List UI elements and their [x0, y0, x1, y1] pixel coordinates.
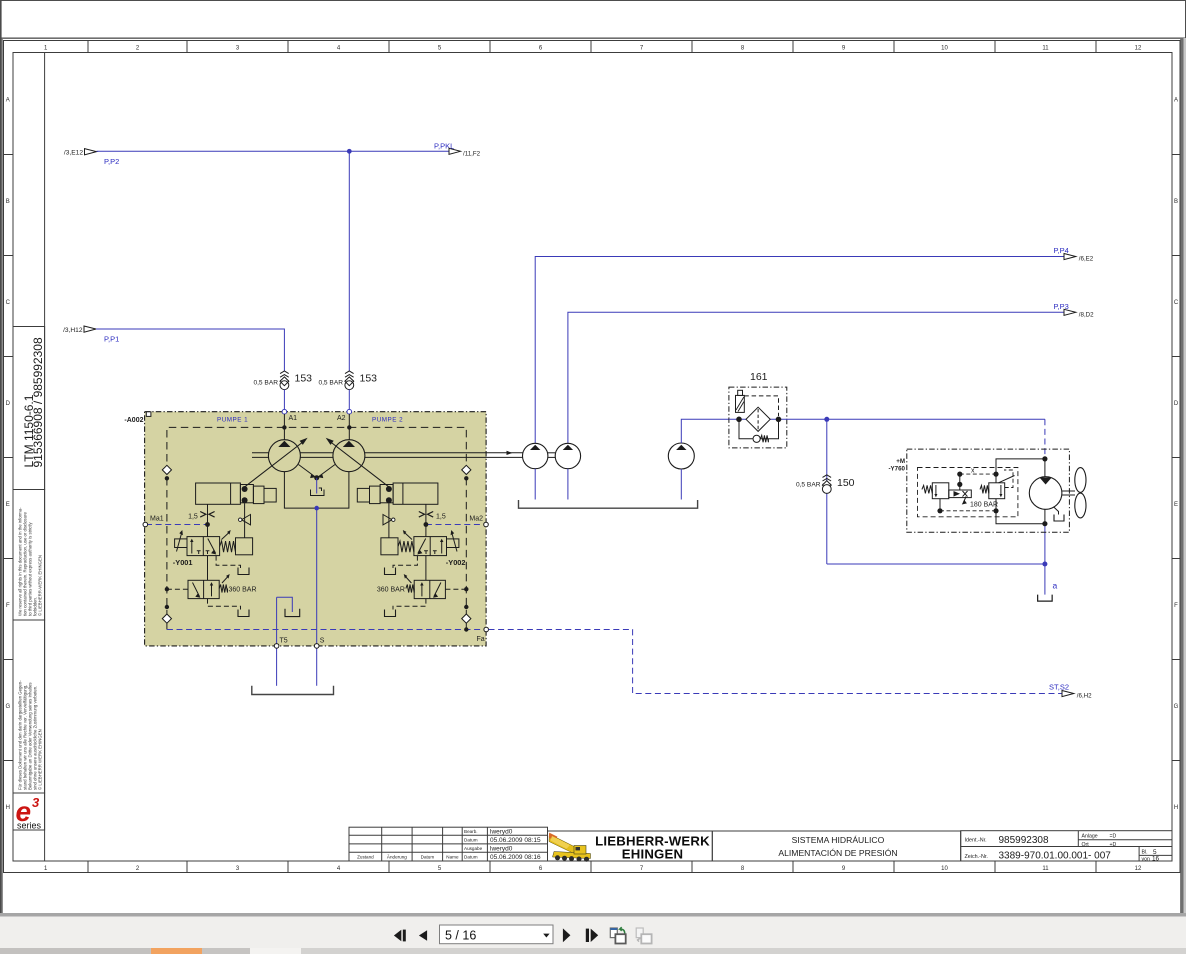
svg-text:-Y001: -Y001 — [173, 558, 193, 567]
node P,PKL output arrow /11,F2 — [434, 141, 481, 157]
wire valve pilot dashed with x — [960, 473, 996, 475]
node P,P3 output arrow /8,D2 — [1054, 302, 1095, 319]
valve A (unloading) — [922, 483, 971, 505]
product name rotated text — [22, 337, 45, 467]
wire drain to motor return — [996, 511, 1045, 524]
svg-text:Ident.-Nr.: Ident.-Nr. — [965, 838, 987, 844]
port T5 — [274, 644, 279, 649]
svg-text:161: 161 — [750, 371, 768, 383]
cylinder 2 piston pins — [386, 486, 392, 492]
bottom gray divider under page — [0, 913, 1186, 917]
pump unit -A002 enclosure — [145, 412, 487, 646]
wire A2 into pump 2 — [348, 414, 350, 440]
wire cooler return bottom — [827, 563, 1045, 565]
sidebar english notice box — [13, 490, 45, 621]
motor case drain + tank — [1054, 507, 1059, 515]
node ST,S2 output arrow /6,H2 — [1049, 682, 1092, 699]
fan unit -Y760 enclosure — [907, 449, 1070, 532]
drain V junction — [314, 475, 319, 480]
fan motor — [1029, 459, 1062, 524]
svg-text:Fa: Fa — [477, 636, 485, 643]
port A2 — [347, 409, 352, 414]
auxiliary gear pump 2 (P3) — [555, 443, 580, 468]
pump P2 (variable axial piston) — [326, 438, 389, 487]
wire aux pump suction drops — [535, 469, 681, 500]
svg-text:153: 153 — [360, 373, 378, 385]
wire -Y002 drain to tank — [393, 556, 417, 568]
svg-text:1,5: 1,5 — [188, 513, 198, 520]
check valve 150 — [796, 475, 855, 494]
svg-text:3389-970.01.00.001- 007: 3389-970.01.00.001- 007 — [999, 851, 1112, 862]
ident number box — [961, 831, 1172, 861]
cylinder 1 piston pins — [242, 486, 248, 492]
svg-text:10: 10 — [941, 866, 948, 872]
svg-text:A2: A2 — [337, 415, 346, 422]
svg-text:Name: Name — [446, 854, 459, 859]
port Ma2 — [484, 522, 489, 527]
svg-text:150: 150 — [837, 477, 855, 489]
svg-text:05.06.2009 08:16: 05.06.2009 08:16 — [490, 854, 541, 861]
wire Ma1 junction to -Y001 — [207, 525, 209, 537]
wire filter junction down to check valve 150 — [826, 419, 828, 564]
svg-text:x: x — [971, 468, 975, 475]
pump P1 (variable axial piston) — [245, 438, 308, 487]
svg-text:lweryd0: lweryd0 — [490, 845, 513, 852]
svg-text:-Y002: -Y002 — [446, 558, 466, 567]
svg-text:Ma2: Ma2 — [469, 516, 483, 523]
pump 2 stroking cylinder — [357, 483, 438, 504]
svg-text:11: 11 — [1042, 45, 1049, 51]
fan shaft — [1062, 491, 1075, 495]
wire ST,S2 drain (blue dashed) — [489, 630, 1063, 694]
wire T5 drain (blue) — [276, 597, 278, 686]
svg-text:-Y760: -Y760 — [888, 466, 905, 473]
svg-text:Änderung: Änderung — [387, 853, 407, 859]
wire V junction to inner tank — [316, 478, 318, 494]
junction A2 on dashed boundary — [347, 425, 351, 429]
logo box — [548, 831, 713, 861]
svg-text:/6,E2: /6,E2 — [1079, 256, 1094, 263]
nav prev-page button — [419, 930, 427, 940]
svg-text:/11,F2: /11,F2 — [463, 151, 481, 158]
wire -Y001 drain to tank — [216, 556, 240, 568]
svg-text:A: A — [6, 98, 10, 104]
junction motor feed — [1042, 456, 1047, 461]
navigation bar background — [0, 917, 1186, 949]
wire Ma1 gauge line (blue dashed) — [146, 524, 208, 526]
wire valve A drain — [939, 499, 941, 511]
junction Fa line — [464, 627, 468, 631]
svg-text:/3,H12: /3,H12 — [63, 327, 83, 334]
junction pilot right — [993, 472, 998, 477]
svg-text:C: C — [1174, 300, 1179, 306]
tank -Y001 — [238, 568, 249, 575]
junction A1 on dashed boundary — [282, 425, 286, 429]
wire -Y002 to relief valve 2 — [425, 556, 427, 581]
wire relief 2 pilot dashed — [445, 588, 466, 590]
nav page combobox — [440, 925, 554, 944]
svg-text:12: 12 — [1135, 866, 1142, 872]
title block revision table — [349, 827, 548, 861]
auxiliary gear pump 3 (cooler feed) — [668, 443, 694, 469]
nav next-page button — [563, 928, 571, 942]
svg-text:F: F — [1174, 603, 1178, 609]
junction S collector — [314, 506, 319, 511]
nav first-page button — [394, 930, 406, 942]
orifice 1,5 (pump 2) — [425, 504, 427, 524]
flushing diamond right lower — [462, 614, 471, 623]
svg-text:10: 10 — [941, 45, 948, 51]
wire Ma2 gauge line (blue dashed) — [426, 524, 486, 526]
wire through filter — [729, 418, 827, 420]
svg-text:153: 153 — [295, 373, 313, 385]
node +M -Y760 label — [888, 458, 905, 473]
nav last-page button — [586, 929, 598, 942]
node P,P4 output arrow /6,E2 — [1054, 246, 1094, 263]
wire filter outlet to motor branch — [827, 418, 1045, 420]
clogging indicator — [736, 390, 745, 412]
wire indicator bypass dashed — [744, 396, 778, 416]
svg-text:B: B — [1174, 199, 1178, 205]
viewer left border — [0, 0, 2, 916]
svg-text:/6,H2: /6,H2 — [1077, 693, 1092, 700]
svg-text:16: 16 — [1152, 856, 1160, 863]
check valve 153 (pump 2 outlet) — [318, 371, 377, 390]
svg-text:3: 3 — [32, 795, 40, 810]
svg-text:360 BAR: 360 BAR — [229, 587, 257, 594]
sidebar column divider — [44, 53, 46, 862]
wire relief 2 drain — [393, 599, 426, 610]
svg-text:12: 12 — [1135, 45, 1142, 51]
filter element (diamond) — [746, 407, 770, 431]
svg-text:ALIMENTACIÓN DE PRESIÓN: ALIMENTACIÓN DE PRESIÓN — [778, 848, 897, 858]
flushing diamond left upper — [162, 465, 171, 474]
wire motor feed branch — [996, 459, 1045, 483]
valve B relief 180 BAR — [970, 470, 1015, 509]
svg-text:von: von — [1142, 856, 1150, 862]
author/date values — [490, 828, 541, 861]
svg-text:11: 11 — [1042, 866, 1049, 872]
svg-text:Datum: Datum — [464, 854, 478, 859]
svg-text:B: B — [6, 199, 10, 205]
svg-text:Ausgabe: Ausgabe — [464, 846, 483, 851]
svg-text:=D: =D — [1110, 834, 1117, 840]
svg-text:985992308: 985992308 — [999, 835, 1049, 846]
svg-text:P,P1: P,P1 — [104, 335, 119, 344]
svg-text:E: E — [6, 502, 10, 508]
pump 1 stroking cylinder — [196, 483, 277, 504]
wire valve153-1 to port A1 — [283, 390, 285, 410]
junction left pilot — [165, 587, 169, 591]
svg-text:series: series — [17, 821, 42, 831]
filter bypass check valve — [739, 419, 779, 442]
leak oil collector tank inside box — [285, 609, 300, 617]
viewer right edge strips — [1181, 38, 1184, 916]
port A1 — [282, 409, 287, 414]
filter unit 161 enclosure — [729, 387, 787, 448]
sidebar logo box — [13, 793, 45, 830]
junction return/tank — [1042, 562, 1047, 567]
english notice rotated text — [18, 507, 43, 616]
svg-text:© LIEBHERR-WERK EHINGEN: © LIEBHERR-WERK EHINGEN — [38, 555, 43, 616]
svg-text:D: D — [1174, 401, 1179, 407]
wire relief 1 drain — [208, 599, 241, 610]
svg-text:Bl.: Bl. — [1142, 849, 1148, 855]
sidebar german notice box — [13, 620, 45, 793]
junction right pilot — [464, 587, 468, 591]
svg-text:/3,E12: /3,E12 — [64, 149, 83, 156]
svg-text:1,5: 1,5 — [436, 513, 446, 520]
port Fa — [484, 627, 489, 632]
wire S drain (blue) — [316, 508, 318, 686]
author/date labels — [464, 829, 483, 860]
svg-text:EHINGEN: EHINGEN — [622, 847, 683, 862]
svg-text:360 BAR: 360 BAR — [377, 587, 405, 594]
svg-text:SISTEMA HIDRÁULICO: SISTEMA HIDRÁULICO — [792, 835, 885, 845]
sheet title text — [778, 835, 897, 858]
svg-text:A: A — [1174, 98, 1178, 104]
wire A2 riser from P,P2 junction — [348, 151, 350, 371]
wire Fa drain line (blue dashed, box bottom) — [167, 629, 484, 631]
svg-text:0,5 BAR: 0,5 BAR — [796, 482, 821, 489]
svg-text:+M: +M — [896, 458, 905, 465]
svg-text:PUMPE 1: PUMPE 1 — [217, 417, 248, 424]
svg-text:Datum: Datum — [421, 854, 435, 859]
valve -Y001 proportional pressure control — [173, 530, 253, 567]
revision table headers — [357, 853, 459, 859]
fan valve inner dashed box — [918, 468, 1018, 517]
flushing diamond left lower — [162, 614, 171, 623]
svg-text:Ort: Ort — [1082, 842, 1090, 848]
svg-text:-A002: -A002 — [124, 417, 143, 424]
pump group inner dashed boundary — [167, 427, 466, 629]
fan blades — [1075, 468, 1086, 518]
svg-text:C: C — [6, 300, 11, 306]
wire motor return to tank a — [1044, 524, 1046, 595]
wire pump 3 to filter — [681, 419, 729, 443]
junction right upper — [464, 476, 468, 480]
ruler row letters — [5, 98, 1178, 812]
wire valve153-2 to port A2 — [348, 390, 350, 410]
svg-text:180 BAR: 180 BAR — [970, 502, 998, 509]
svg-text:F: F — [6, 603, 10, 609]
wire P,P1 horizontal and riser — [96, 329, 284, 372]
shaft pump1-aux coupling — [548, 453, 556, 458]
top toolbar bar — [1, 1, 1186, 39]
orifice 1,5 (pump 1) — [207, 504, 209, 524]
svg-text:a: a — [1053, 581, 1058, 591]
junction filter output to cooler line — [824, 417, 829, 422]
node P,P1 source arrow /3,H12 — [63, 326, 96, 334]
drain V arrow tips — [310, 474, 315, 478]
svg-text:05.06.2009 08:15: 05.06.2009 08:15 — [490, 837, 541, 844]
tank relief 1 — [238, 610, 249, 617]
junction Ma1 tap — [205, 522, 210, 527]
check valve 153 (pump 1 outlet) — [253, 371, 312, 390]
ruler column ticks top and bottom — [88, 41, 1096, 873]
e2 series logo — [16, 795, 42, 831]
LIEBHERR-WERK EHINGEN logotype — [595, 833, 710, 861]
junction valve drains — [993, 508, 998, 513]
taskbar strip — [0, 948, 1186, 954]
tank relief 2 — [385, 610, 396, 617]
shaft direction arrow — [507, 451, 513, 455]
svg-text:0,5 BAR: 0,5 BAR — [253, 380, 278, 387]
nav next-view icon (disabled) — [636, 928, 651, 944]
junction motor return — [1042, 521, 1047, 526]
junction right drain — [464, 605, 468, 609]
svg-text:Datum: Datum — [464, 837, 478, 842]
inner tank symbol under pumps — [311, 488, 325, 496]
junction left drain — [165, 605, 169, 609]
junction filter outlet — [776, 417, 782, 423]
port S — [314, 644, 319, 649]
pilot nozzle pump 2 — [388, 503, 390, 538]
crane picture — [549, 833, 591, 862]
pump case drain V lines — [299, 465, 336, 479]
suction manifold from tank — [519, 500, 698, 508]
pump outer case drain lines to S — [284, 472, 349, 508]
anlage/ort cells — [1082, 834, 1117, 848]
svg-text:© LIEBHERR WERK EHINGEN: © LIEBHERR WERK EHINGEN — [38, 729, 43, 790]
svg-text:H: H — [6, 805, 10, 811]
svg-text:E: E — [1174, 502, 1178, 508]
svg-text:Bearb.: Bearb. — [464, 829, 478, 834]
junction on P,P2 line — [347, 149, 352, 154]
svg-text:G: G — [5, 704, 10, 710]
main tank below pump unit — [252, 686, 334, 695]
svg-text:D: D — [6, 401, 11, 407]
wire P,P4 from auxiliary pump 1 — [535, 257, 1064, 444]
sidebar product box — [13, 327, 45, 490]
svg-text:ST,S2: ST,S2 — [1049, 682, 1069, 691]
wire -Y001 to relief valve 1 — [207, 556, 209, 581]
wire branch down to fan motor (dashed) — [1044, 419, 1046, 459]
nav previous-view icon — [610, 927, 625, 943]
svg-text:Zustand: Zustand — [357, 854, 374, 859]
pilot nozzle pump 1 — [244, 503, 246, 538]
svg-text:915366908 / 985992308: 915366908 / 985992308 — [31, 337, 45, 467]
svg-text:0,5 BAR: 0,5 BAR — [318, 380, 343, 387]
drive shaft double line — [252, 453, 523, 458]
junction filter inlet — [736, 417, 742, 423]
svg-text:T5: T5 — [280, 638, 288, 645]
svg-text:Anlage: Anlage — [1082, 834, 1098, 840]
svg-text:A1: A1 — [289, 415, 298, 422]
svg-text:S: S — [320, 638, 325, 645]
svg-text:lweryd0: lweryd0 — [490, 828, 513, 835]
junction left upper — [165, 476, 169, 480]
port Ma1 — [143, 522, 148, 527]
svg-text:/8,D2: /8,D2 — [1079, 311, 1094, 318]
wire P,P3 from auxiliary pump 2 — [568, 312, 1064, 443]
german notice rotated text — [18, 680, 43, 790]
valve -Y002 proportional pressure control — [381, 530, 466, 567]
wire A1 into pump 1 — [283, 414, 285, 440]
svg-text:+D: +D — [1110, 842, 1117, 848]
svg-text:5 / 16: 5 / 16 — [445, 928, 476, 942]
ruler row ticks left and right — [4, 155, 1181, 761]
svg-text:Zeich.-Nr.: Zeich.-Nr. — [965, 854, 988, 860]
node P,P2 source arrow /3,E12 — [64, 149, 97, 157]
enclosure corner handle square — [146, 412, 151, 417]
svg-text:P,P2: P,P2 — [104, 157, 119, 166]
tank a — [1038, 595, 1053, 602]
junction Ma2 tap — [424, 522, 429, 527]
auxiliary gear pump 1 (P4) — [523, 443, 548, 468]
wire Ma2 junction to -Y002 — [425, 525, 427, 537]
wire P,P2 horizontal — [97, 150, 450, 152]
sheet number cells — [1142, 849, 1160, 863]
flushing diamond right upper — [462, 465, 471, 474]
svg-text:G: G — [1174, 704, 1179, 710]
svg-text:H: H — [1174, 805, 1178, 811]
sheet title box — [712, 831, 960, 861]
tank -Y002 — [385, 568, 396, 575]
svg-text:PUMPE 2: PUMPE 2 — [372, 417, 403, 424]
relief valve 360 BAR (pump 1) — [188, 574, 257, 599]
wire relief 1 pilot dashed — [167, 588, 188, 590]
junction pilot left — [957, 472, 962, 477]
relief valve 360 BAR (pump 2) — [377, 574, 446, 599]
wire valve B drain — [995, 499, 997, 511]
svg-text:Ma1: Ma1 — [150, 516, 164, 523]
